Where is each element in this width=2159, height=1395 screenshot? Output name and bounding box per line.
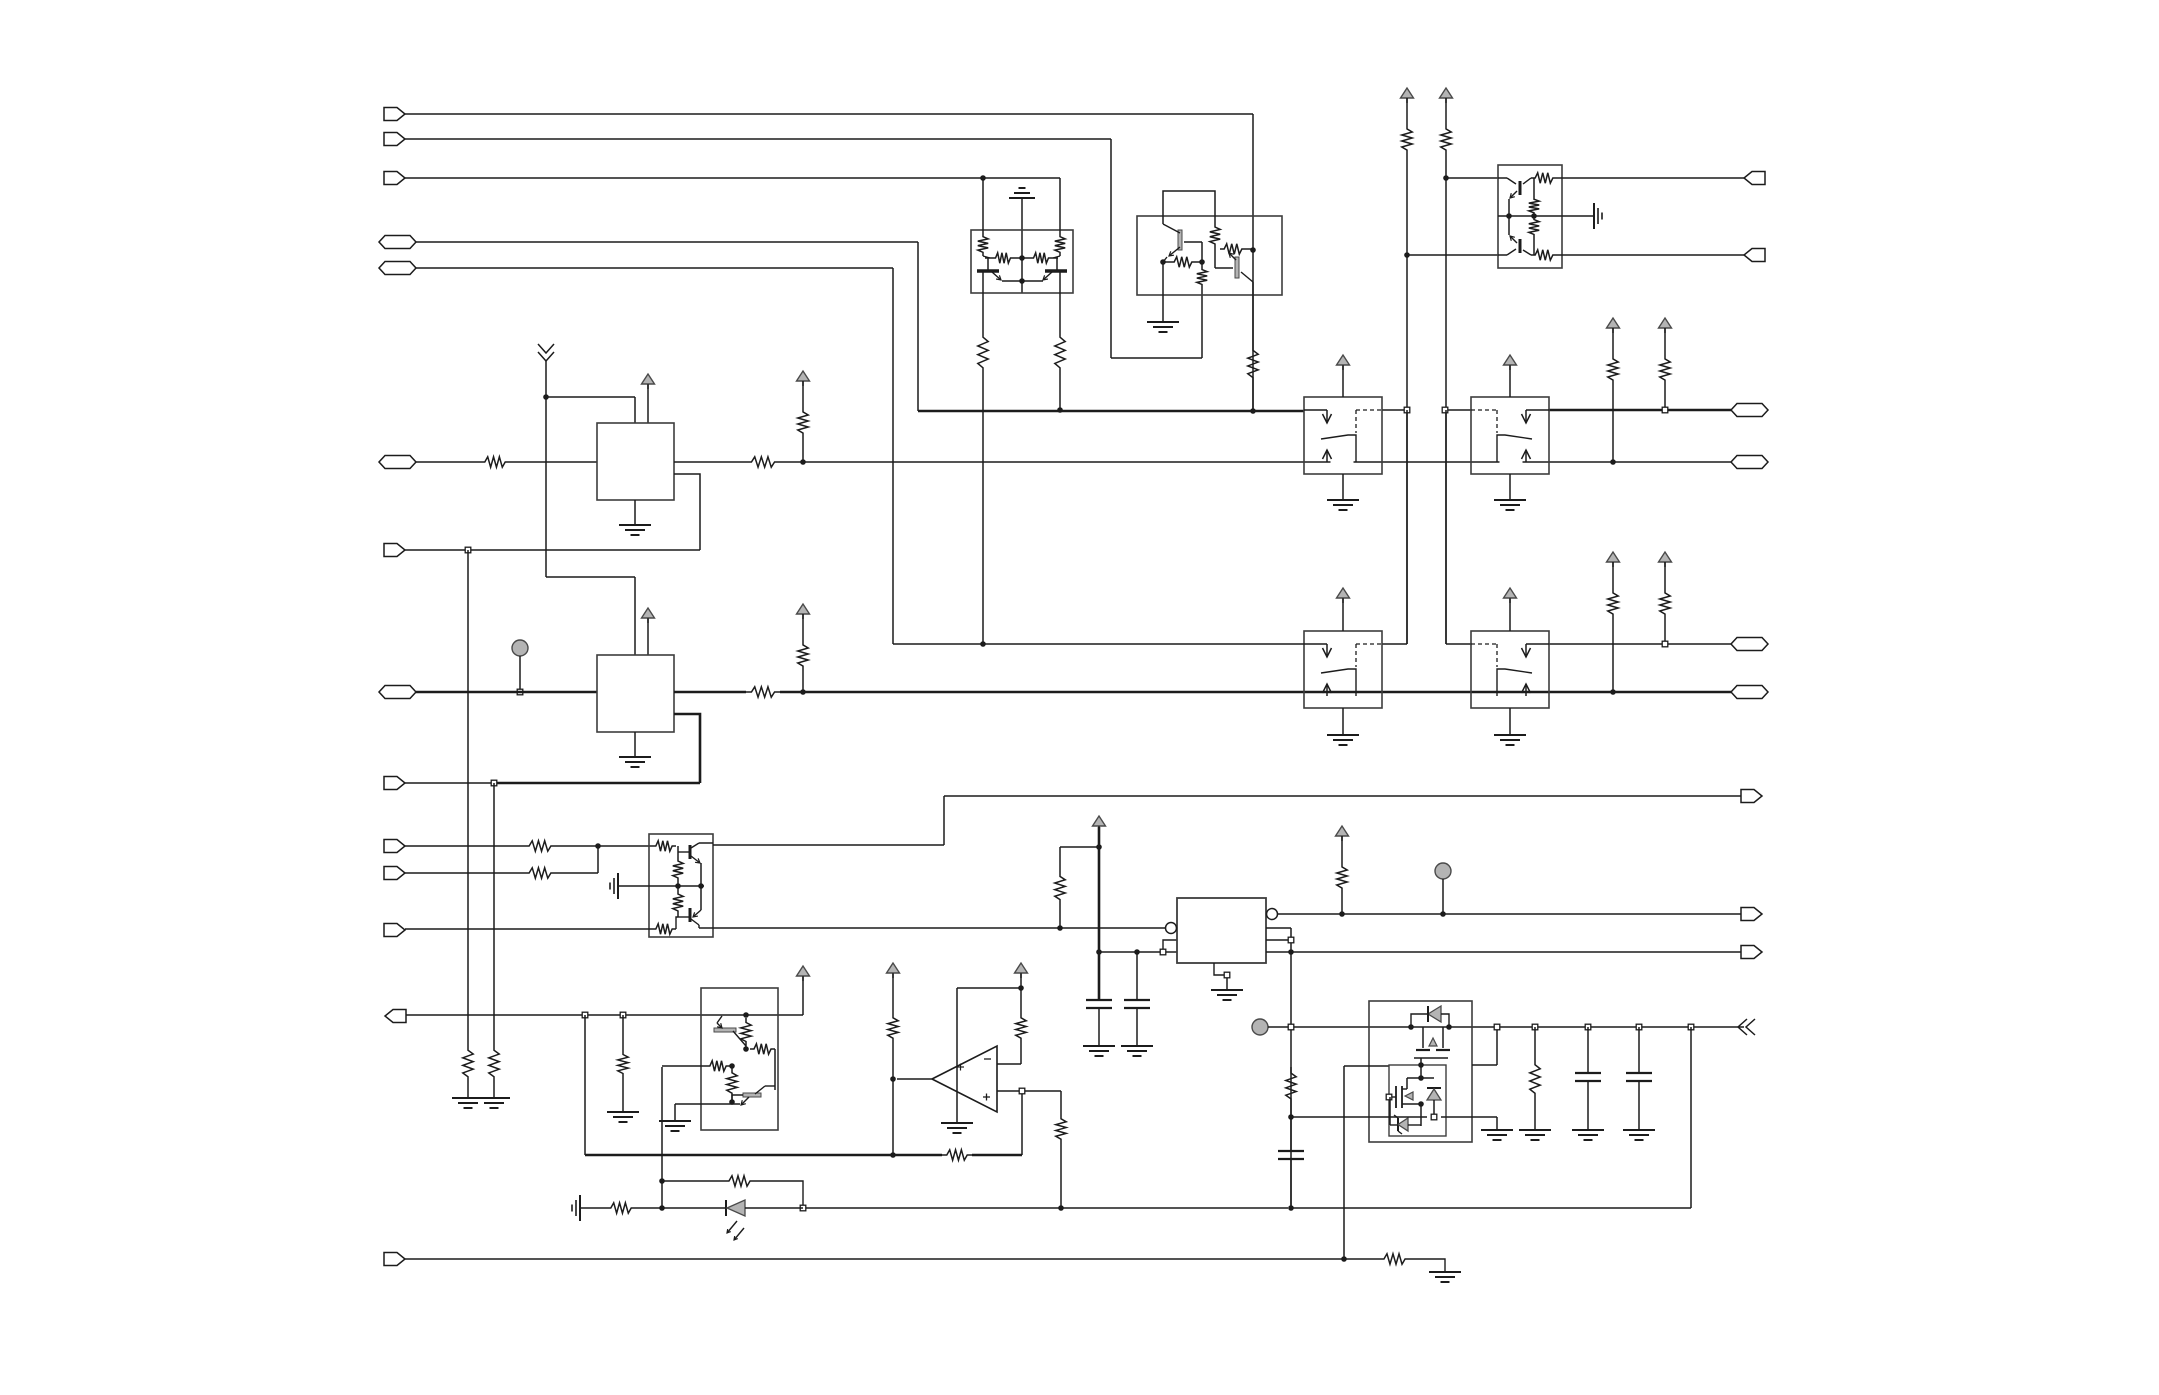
- resistor R47: [1286, 1067, 1296, 1105]
- wire VCC-K1 stub: [1342, 366, 1344, 397]
- resistor R26: [1529, 216, 1539, 255]
- resistor R33: [1660, 562, 1670, 644]
- IC U4 box: [649, 834, 713, 937]
- wire net-tr2 out: [1562, 254, 1744, 256]
- junction C1-a: [1096, 844, 1102, 850]
- port PO1: [1744, 172, 1765, 185]
- junction P10-a: [595, 843, 601, 849]
- power VCC-M2: [642, 608, 655, 623]
- resistor R22: [1402, 98, 1412, 644]
- resistor R45: [1055, 847, 1065, 928]
- wire net8: [893, 643, 1304, 645]
- wire row1 link-a: [1382, 409, 1404, 411]
- junction U8-e: [1386, 1094, 1392, 1100]
- power VCC-B1: [797, 966, 810, 981]
- transistor Q6: [1498, 216, 1531, 255]
- wire net-tr2: [1407, 254, 1498, 256]
- wire net16: [1291, 1116, 1427, 1118]
- junction led-d: [1058, 1205, 1064, 1211]
- opto K1 box: [1304, 397, 1382, 474]
- wire net9-out: [713, 796, 1741, 845]
- wire U7 pin2L: [1163, 940, 1177, 949]
- junction net15-b: [1288, 1114, 1294, 1120]
- junction net11-b: [620, 1012, 626, 1018]
- wire N2 stub: [1442, 879, 1444, 914]
- junction U2-a: [1160, 259, 1166, 265]
- ground GND-U8: [1481, 1130, 1513, 1140]
- pin U7-out bubble: [1267, 909, 1278, 920]
- wire U2 gnd stub: [1162, 262, 1164, 322]
- wire net6 mid: [918, 410, 1304, 413]
- resistor R48: [1530, 1027, 1540, 1130]
- junction U1 emit: [1019, 278, 1025, 284]
- power VCC-T2: [1440, 88, 1453, 103]
- port P13: [384, 1253, 405, 1266]
- port PO7: [1741, 790, 1762, 803]
- wire Q10 emit: [675, 1104, 740, 1121]
- port PO4: [1731, 456, 1768, 469]
- ground GND-K3: [1327, 735, 1359, 745]
- junction U5-b: [743, 1046, 749, 1052]
- junction net15-f: [1636, 1024, 1642, 1030]
- port P9: [384, 777, 405, 790]
- pin U7-1 bubble: [1166, 923, 1177, 934]
- wire K4 gnd stub: [1509, 708, 1511, 735]
- LED D4: [662, 1200, 803, 1216]
- IC U8 inner box: [1389, 1065, 1446, 1136]
- wire led-right: [806, 1207, 1288, 1209]
- wire VCC-K4 stub: [1509, 599, 1511, 631]
- power VCC-R33: [1659, 552, 1672, 567]
- resistor R11: [978, 178, 990, 258]
- capacitor C2: [1124, 1000, 1150, 1046]
- IC U3 box: [1498, 165, 1562, 268]
- wire M2 top L: [546, 577, 635, 655]
- resistor R20: [798, 381, 808, 462]
- wire net7-right: [674, 687, 1731, 697]
- junction P9-a: [491, 780, 497, 786]
- junction net7-a: [800, 689, 806, 695]
- wire U7 pin6: [1266, 939, 1291, 941]
- power VCC-K2: [1504, 355, 1517, 370]
- junction net17-a: [1341, 1256, 1347, 1262]
- wire pulldown2: [489, 783, 499, 1098]
- wire net16-b: [1441, 1117, 1497, 1130]
- port P1: [384, 108, 405, 121]
- junction M1-L: [543, 394, 549, 400]
- junction net15-c: [1494, 1024, 1500, 1030]
- resistor R27: [1531, 250, 1562, 260]
- junction U3-b: [1506, 213, 1512, 219]
- wire U8 gate in: [1344, 1065, 1389, 1067]
- transistor Q1: [977, 258, 1022, 281]
- wire net12: [1099, 951, 1177, 953]
- resistor R40: [706, 1061, 730, 1071]
- junction T1-a: [1404, 252, 1410, 258]
- wire net-P12: [405, 928, 652, 930]
- wire U5 in2: [662, 1065, 706, 1067]
- junction C1-b: [1096, 949, 1102, 955]
- junction net15-e: [1585, 1024, 1591, 1030]
- IC U8 box: [1369, 1001, 1472, 1142]
- opto K2 box: [1471, 397, 1549, 474]
- port P8: [379, 686, 416, 699]
- junction U5-c: [729, 1063, 735, 1069]
- resistor R31: [1660, 328, 1670, 410]
- resistor R13: [985, 253, 1022, 263]
- wire row1 out: [1549, 409, 1731, 412]
- gray node N3: [1252, 1019, 1268, 1035]
- resistor R18: [1220, 244, 1253, 254]
- transistor Q8: [678, 908, 713, 928]
- port PO5: [1731, 638, 1768, 651]
- ground GND-K2: [1494, 500, 1526, 510]
- resistor R15: [1210, 223, 1233, 268]
- ground GND-M1: [619, 525, 651, 535]
- junction U8-f: [1418, 1101, 1424, 1107]
- ground GND-U3: [1594, 203, 1602, 229]
- wire M2 gnd stub: [634, 732, 636, 757]
- wire row2 out: [1549, 643, 1731, 645]
- junction R30-a: [1610, 459, 1616, 465]
- ground GND-LED: [572, 1195, 580, 1221]
- wire VCC-M2 stub: [647, 619, 649, 655]
- wire net5: [416, 268, 893, 644]
- resistor R17: [1197, 266, 1207, 294]
- junction U7-a: [1288, 937, 1294, 943]
- transistor Q10: [732, 1086, 775, 1105]
- power VCC-R30: [1607, 318, 1620, 333]
- junction net6-a: [800, 459, 806, 465]
- wire U8 d1: [1407, 1065, 1434, 1078]
- port P4: [379, 236, 416, 249]
- mosfet M1: [1414, 1027, 1450, 1065]
- wire OP fb top: [957, 974, 1021, 1013]
- power VCC-R20: [797, 371, 810, 386]
- wire net-r2 link-a: [1382, 410, 1407, 644]
- wire Q4 collector: [1248, 282, 1258, 411]
- junction U4-b: [698, 883, 704, 889]
- power VCC-K4: [1504, 588, 1517, 603]
- junction row1-b: [1442, 407, 1448, 413]
- junction T2-a: [1443, 175, 1449, 181]
- wire pulldown3: [618, 1015, 628, 1112]
- resistor R30: [1608, 328, 1618, 462]
- junction R31-a: [1662, 407, 1668, 413]
- transistor Q5: [1498, 178, 1531, 216]
- wire net-tr1 out: [1562, 177, 1744, 179]
- wire net16 right: [1291, 1027, 1691, 1208]
- port P11: [384, 867, 405, 880]
- resistor R36: [673, 886, 683, 915]
- junction row1-a: [1404, 407, 1410, 413]
- ground GND-PD1: [452, 1098, 484, 1108]
- junction U8-b: [1446, 1024, 1452, 1030]
- power VCC-R31: [1659, 318, 1672, 333]
- resistor R50: [662, 1176, 803, 1208]
- junction net15-a: [1288, 1024, 1294, 1030]
- wire Q10 coll: [774, 1049, 776, 1090]
- transistor Q9: [714, 1016, 746, 1046]
- junction U1 mid: [1019, 255, 1025, 261]
- junction OP-a: [890, 1076, 896, 1082]
- wire net15: [1268, 1026, 1744, 1028]
- resistor R32: [1608, 562, 1618, 692]
- wire net10-out: [713, 927, 1168, 929]
- port PO8: [385, 1010, 406, 1023]
- resistor R23: [1441, 98, 1451, 644]
- wire net17: [405, 1066, 1344, 1259]
- port P12: [384, 924, 405, 937]
- junction net11-a: [582, 1012, 588, 1018]
- junction Q4c-net6: [1250, 408, 1256, 414]
- wire M2 loop: [674, 714, 700, 783]
- resistor R51: [1344, 1254, 1445, 1272]
- wire net13: [1278, 913, 1741, 915]
- ground GND-R48: [1519, 1130, 1551, 1140]
- power VCC-K1: [1337, 355, 1350, 370]
- junction U3-a: [1531, 213, 1537, 219]
- wire net2: [405, 139, 1202, 358]
- wire net-P9: [405, 782, 700, 784]
- wire VCC-M1 stub: [647, 385, 649, 423]
- ground GND-U7: [1211, 990, 1243, 1000]
- resistor R49: [606, 1203, 662, 1213]
- wire Q1 collector: [978, 271, 988, 644]
- power VCC-K3: [1337, 588, 1350, 603]
- wire Q2 collector: [1055, 271, 1065, 410]
- resistor R38: [741, 1018, 751, 1049]
- resistor R41: [727, 1066, 737, 1102]
- wire VCC-K3 stub: [1342, 599, 1344, 631]
- port P3: [384, 172, 405, 185]
- junction net15-g: [1688, 1024, 1694, 1030]
- wire M1 loop: [674, 474, 700, 550]
- wire net1: [405, 114, 1253, 411]
- wire U3 mid: [1498, 215, 1594, 217]
- ground GND-U2: [1147, 322, 1179, 332]
- wire net6-left: [416, 457, 597, 467]
- junction net16-a: [1288, 1205, 1294, 1211]
- junction U7-b: [1288, 949, 1294, 955]
- wire U2 top loop: [1163, 191, 1215, 224]
- diode D1: [1411, 1006, 1449, 1027]
- gray node N1: [512, 640, 528, 656]
- wire VCC-K2 stub: [1509, 366, 1511, 397]
- resistor R39: [750, 1044, 775, 1054]
- capacitor C5: [1278, 1105, 1304, 1208]
- opto K3 box: [1304, 631, 1382, 708]
- junction U5-a: [743, 1012, 749, 1018]
- gray node N2: [1435, 863, 1451, 879]
- IC M2 box: [597, 655, 674, 732]
- wire VCC-B1 stub: [802, 977, 804, 1015]
- wire sense: [585, 1015, 1022, 1160]
- wire pulldown1: [463, 550, 473, 1098]
- zener D3: [1390, 1097, 1421, 1134]
- wire R45 link: [1060, 846, 1099, 848]
- IC U5 box: [701, 988, 778, 1130]
- IC M1 box: [597, 423, 674, 500]
- net stub chevron: [538, 344, 554, 361]
- op-amp U6: [932, 1046, 997, 1112]
- junction Q2c-net6: [1057, 407, 1063, 413]
- junction U2-b: [1199, 259, 1205, 265]
- ground GND-K4: [1494, 735, 1526, 745]
- junction led-a: [659, 1205, 665, 1211]
- ground GND-U5: [659, 1121, 691, 1131]
- ground GND-C2: [1121, 1046, 1153, 1056]
- wire net-P7: [405, 549, 700, 551]
- port P7: [384, 544, 405, 557]
- junction net10-a: [1057, 925, 1063, 931]
- junction Q1c-net7: [980, 641, 986, 647]
- capacitor C3: [1575, 1027, 1601, 1130]
- junction U4-a: [675, 883, 681, 889]
- junction R33-a: [1662, 641, 1668, 647]
- wire net4: [416, 242, 918, 411]
- wire net3: [405, 177, 1060, 179]
- wire M1 gnd stub: [634, 500, 636, 525]
- junction U8-c: [1418, 1062, 1424, 1068]
- power VCC-R46: [1336, 826, 1349, 841]
- port PO9: [1741, 908, 1762, 921]
- ground GND-PD3: [607, 1112, 639, 1122]
- wire U7 pin5: [1266, 928, 1291, 1208]
- resistor R24: [1531, 173, 1562, 183]
- junction net13-a: [1339, 911, 1345, 917]
- resistor R44: [1056, 1091, 1066, 1208]
- wire U8 s2: [1420, 1104, 1422, 1126]
- junction U7-gnd: [1224, 972, 1230, 978]
- port P10: [384, 840, 405, 853]
- power VCC-R32: [1607, 552, 1620, 567]
- wire row1 link-b: [1448, 409, 1471, 411]
- IC U7 box: [1177, 898, 1266, 963]
- wire net-r2 link-b: [1446, 410, 1471, 644]
- resistor R25: [1529, 178, 1539, 216]
- wire net7-left: [416, 691, 597, 694]
- transistor Q4: [1229, 253, 1253, 282]
- ground GND-C1: [1083, 1046, 1115, 1056]
- junction C2-a: [1134, 949, 1140, 955]
- resistor R35: [673, 857, 683, 886]
- junction U8-g: [1431, 1114, 1437, 1120]
- ground GND-U1 inverted: [1009, 188, 1035, 198]
- junction net15-d: [1532, 1024, 1538, 1030]
- resistor R34: [652, 841, 676, 851]
- wire net-tr1: [1446, 177, 1498, 179]
- port PO3: [1731, 404, 1768, 417]
- transistor Q3: [1163, 224, 1202, 266]
- ground GND-U4: [610, 873, 618, 899]
- wire U1 center rail: [1021, 198, 1023, 293]
- junction net12-a: [1160, 949, 1166, 955]
- wire N1 stub: [519, 656, 521, 692]
- junction net3-a: [980, 175, 986, 181]
- transistor Q7: [678, 843, 713, 863]
- junction R32-a: [1610, 689, 1616, 695]
- ground GND-C4: [1623, 1130, 1655, 1140]
- wire U7 gnd: [1214, 963, 1227, 990]
- junction N1-a: [517, 689, 523, 695]
- diode D2: [1427, 1088, 1441, 1117]
- resistor R16: [1163, 257, 1202, 267]
- resistor R37: [652, 917, 678, 934]
- LED D4 arrows: [727, 1221, 744, 1240]
- power VCC-C1: [1093, 816, 1106, 831]
- wire U8 right link: [1472, 1027, 1497, 1065]
- wire K3 gnd stub: [1342, 708, 1344, 735]
- power VCC-OP2: [1015, 963, 1028, 978]
- wire net6-right: [674, 457, 1731, 467]
- resistor R21: [798, 614, 808, 692]
- port PO10: [1741, 946, 1762, 959]
- wire U4 mid: [618, 885, 704, 887]
- wire K2 gnd stub: [1509, 474, 1511, 500]
- ground GND-OP: [941, 1123, 973, 1133]
- resistor R14: [1022, 253, 1058, 263]
- ground GND-C3: [1572, 1130, 1604, 1140]
- wire U7 pin7: [1266, 951, 1291, 953]
- port PO6: [1731, 686, 1768, 699]
- port P5: [379, 262, 416, 275]
- junction U2-c: [1250, 247, 1256, 253]
- mosfet M2: [1389, 1078, 1421, 1108]
- wire OP plus: [997, 1090, 1061, 1092]
- junction OP-d: [1019, 1088, 1025, 1094]
- port P2: [384, 133, 405, 146]
- junction led-c: [800, 1205, 806, 1211]
- wire c2 col: [1136, 952, 1138, 1000]
- junction led-b: [659, 1178, 665, 1184]
- port PO2: [1744, 249, 1765, 262]
- wire K1 gnd stub: [1342, 474, 1344, 500]
- power VCC-OP1: [887, 963, 900, 978]
- power VCC-R21: [797, 604, 810, 619]
- junction U8-d: [1418, 1075, 1424, 1081]
- wire fb loop: [661, 1067, 663, 1208]
- wire Q7 emit rail: [700, 863, 702, 910]
- IC U2 box: [1137, 216, 1282, 295]
- wire net11: [406, 1014, 803, 1016]
- ground GND-R51: [1429, 1272, 1461, 1282]
- wire led-left: [580, 1207, 606, 1209]
- wire M1 top L: [546, 361, 635, 577]
- resistor R42: [888, 974, 898, 1079]
- ground GND-PD2: [478, 1098, 510, 1108]
- net tap chevron2: [1738, 1019, 1755, 1035]
- opto K4 box: [1471, 631, 1549, 708]
- power VCC-M1: [642, 374, 655, 389]
- wire vcc col: [1098, 827, 1101, 1000]
- junction U5-d: [729, 1099, 735, 1105]
- wire opamp out: [893, 1079, 932, 1155]
- wire net9-in: [598, 845, 652, 847]
- resistor R12: [1053, 178, 1065, 258]
- port P6: [379, 456, 416, 469]
- resistor R46: [1337, 836, 1347, 914]
- capacitor C1: [1086, 1000, 1112, 1046]
- transistor Q2: [1022, 258, 1067, 281]
- wire U4 node: [677, 915, 679, 917]
- wire net14: [1291, 951, 1741, 953]
- wire net-P10: [405, 841, 598, 851]
- junction net13-b: [1440, 911, 1446, 917]
- capacitor C4: [1626, 1027, 1652, 1130]
- power VCC-T1: [1401, 88, 1414, 103]
- junction P7-a: [465, 547, 471, 553]
